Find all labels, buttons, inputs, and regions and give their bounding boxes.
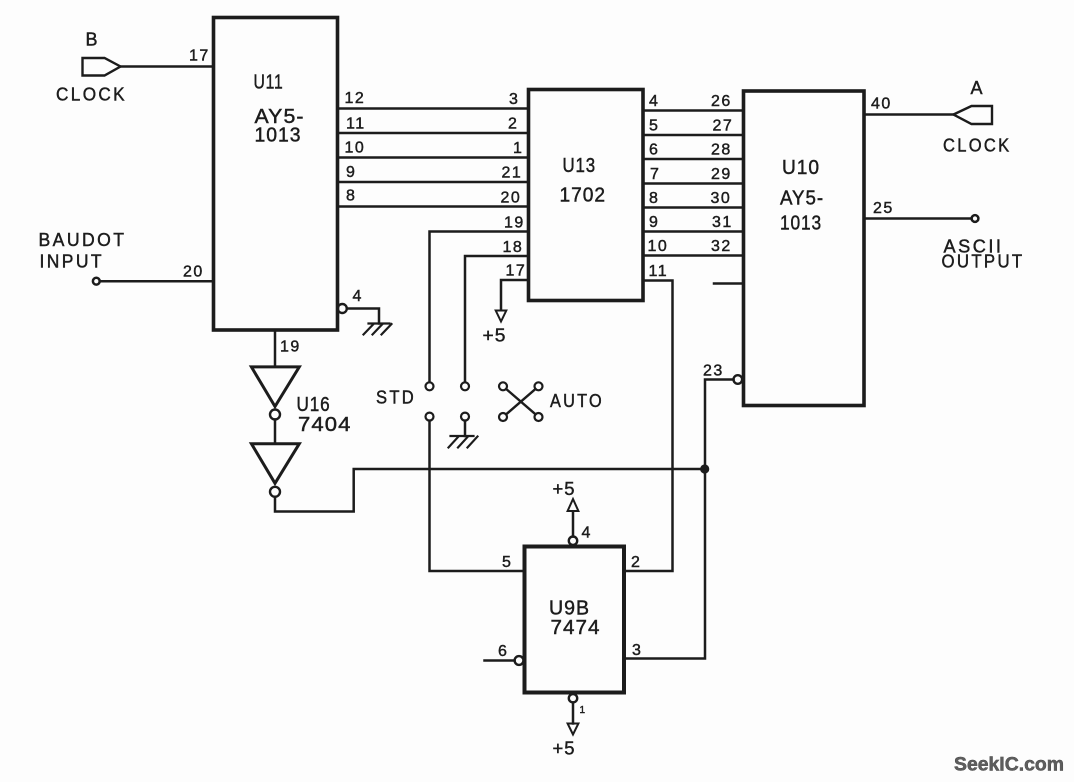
wire U10 pin 23 down to U9B pin 3: [624, 380, 734, 659]
svg-text:+5: +5: [553, 478, 576, 499]
STD switch contact B: [461, 382, 469, 390]
svg-text:1013: 1013: [780, 213, 822, 235]
svg-text:19: 19: [504, 215, 525, 232]
wire U11 pin 11 to U13 pin 2: [338, 132, 529, 135]
ground (U11 pin 4): [364, 324, 392, 335]
wire U13 pin 5 to U10 pin 27: [643, 134, 744, 137]
wire U11 pin 9 to U13 pin 21: [338, 181, 529, 184]
AUTO crossed switch: [499, 382, 507, 390]
U9B pin 4 top circle: [569, 537, 577, 545]
U13 pin 18 wire to switch 2: [465, 256, 529, 382]
wire B clock to U11 pin 17: [121, 65, 214, 68]
svg-text:5: 5: [649, 118, 659, 135]
wire U11 pin 4 to ground: [347, 309, 379, 324]
svg-text:23: 23: [703, 363, 724, 380]
output flag A: [954, 106, 993, 124]
svg-text:3: 3: [509, 91, 519, 108]
svg-text:6: 6: [649, 142, 659, 159]
wire STD contact A to U9B pin 5: [430, 421, 525, 571]
+5 arrow up (U9B pin 4): [568, 499, 579, 511]
+5 arrow (U13 pin 17): [496, 311, 507, 322]
wire U9B pin 6: [485, 659, 515, 662]
svg-text:29: 29: [711, 166, 732, 183]
wire inverter output to junction: [275, 469, 705, 512]
svg-text:7404: 7404: [298, 414, 352, 436]
svg-text:+5: +5: [553, 738, 576, 759]
svg-text:21: 21: [502, 165, 523, 182]
IC U13 1702: [529, 90, 644, 301]
svg-text:1: 1: [580, 705, 586, 716]
U10 pin 23 bubble: [734, 375, 743, 384]
+5 arrow down (U9B pin 1): [568, 724, 579, 735]
svg-text:7: 7: [650, 166, 660, 183]
svg-text:5: 5: [502, 554, 512, 571]
ASCII output terminal circle: [972, 215, 979, 222]
svg-text:20: 20: [501, 190, 522, 207]
svg-text:1013: 1013: [255, 125, 302, 147]
svg-text:2: 2: [631, 554, 641, 571]
wire U11 pin 12 to U13 pin 3: [338, 107, 529, 110]
svg-text:7474: 7474: [551, 617, 601, 639]
wire U13 pin 7 to U10 pin 29: [643, 182, 744, 185]
wire contact B to ground: [464, 421, 467, 436]
svg-text:4: 4: [649, 93, 659, 110]
U13 pin 19 wire to STD switch: [430, 232, 529, 383]
U9B pin 6 bubble: [515, 656, 524, 665]
svg-text:18: 18: [503, 239, 524, 256]
BAUDOT INPUT terminal circle: [93, 278, 100, 285]
svg-text:U13: U13: [563, 155, 597, 177]
wire U13 pin 11 to U9B pin 2: [624, 281, 673, 572]
wire pin 4 to +5: [572, 512, 575, 537]
svg-text:INPUT: INPUT: [40, 252, 105, 272]
wire U11 pin 10 to U13 pin 1: [338, 156, 529, 159]
wire U10 pin 40 to A clock flag: [864, 113, 954, 116]
svg-text:1: 1: [513, 140, 523, 157]
STD switch contact A: [426, 382, 434, 390]
svg-text:26: 26: [711, 93, 732, 110]
IC U11 AY5-1013: [214, 18, 338, 331]
svg-text:2: 2: [508, 116, 518, 133]
junction dot: [700, 464, 709, 473]
svg-text:25: 25: [873, 200, 894, 217]
svg-text:11: 11: [346, 116, 366, 133]
svg-text:1702: 1702: [560, 185, 607, 207]
svg-text:BAUDOT: BAUDOT: [39, 230, 127, 250]
svg-text:3: 3: [632, 642, 642, 659]
IC U10 AY5-1013: [744, 91, 865, 406]
inverter U16a: [251, 367, 299, 407]
svg-text:28: 28: [711, 142, 732, 159]
svg-text:17: 17: [506, 263, 527, 280]
wire U13 pin 8 to U10 pin 30: [643, 206, 744, 209]
inverter U16b: [251, 444, 299, 484]
svg-text:10: 10: [648, 238, 669, 255]
svg-text:AUTO: AUTO: [550, 391, 604, 411]
wire pin 1 to +5: [572, 702, 575, 723]
svg-text:CLOCK: CLOCK: [943, 136, 1012, 156]
svg-text:U16: U16: [297, 394, 331, 416]
svg-text:B: B: [86, 30, 101, 50]
svg-text:6: 6: [498, 643, 508, 660]
svg-text:8: 8: [649, 190, 659, 207]
svg-text:27: 27: [713, 118, 734, 135]
svg-text:12: 12: [345, 90, 366, 107]
wire U13 pin 9 to U10 pin 31: [643, 230, 744, 233]
input flag B: [83, 58, 121, 76]
svg-text:11: 11: [649, 263, 669, 280]
svg-text:CLOCK: CLOCK: [56, 85, 127, 105]
stub into U10: [714, 282, 744, 285]
svg-text:+5: +5: [483, 325, 507, 346]
svg-text:9: 9: [649, 214, 659, 231]
svg-text:OUTPUT: OUTPUT: [942, 252, 1025, 272]
IC U9B 7474: [525, 547, 625, 693]
svg-text:8: 8: [346, 188, 356, 205]
svg-text:20: 20: [183, 264, 204, 281]
wire U13 pin 6 to U10 pin 28: [643, 158, 744, 161]
wire U11 pin 19 down to inverter: [274, 330, 277, 366]
U11 pin 4 bubble: [338, 304, 347, 313]
svg-text:31: 31: [712, 214, 733, 231]
svg-text:4: 4: [582, 525, 592, 542]
svg-text:U11: U11: [254, 72, 284, 94]
svg-text:U10: U10: [782, 157, 820, 179]
U9B pin 1 bottom circle: [569, 694, 577, 702]
svg-text:9: 9: [346, 164, 356, 181]
wire BAUDOT input to U11 pin 20: [100, 280, 214, 283]
svg-text:4: 4: [353, 288, 363, 305]
svg-text:17: 17: [189, 48, 210, 65]
svg-text:10: 10: [345, 140, 366, 157]
U13 pin 17 wire to +5: [501, 280, 529, 310]
wire between inverters: [274, 420, 277, 444]
svg-text:AY5-: AY5-: [780, 188, 824, 210]
svg-text:SeekIC.com: SeekIC.com: [954, 755, 1064, 776]
svg-text:A: A: [971, 78, 986, 98]
wire U13 pin 10 to U10 pin 32: [643, 254, 744, 257]
wire U11 pin 8 to U13 pin 20: [338, 205, 529, 208]
wire U13 pin 4 to U10 pin 26: [643, 109, 744, 112]
ground (STD contact B): [449, 436, 478, 448]
wire U10 pin 25 to ASCII output: [864, 217, 972, 220]
svg-text:19: 19: [280, 339, 301, 356]
svg-text:STD: STD: [376, 388, 416, 408]
svg-text:30: 30: [711, 190, 732, 207]
svg-text:40: 40: [871, 96, 892, 113]
svg-text:32: 32: [711, 238, 732, 255]
